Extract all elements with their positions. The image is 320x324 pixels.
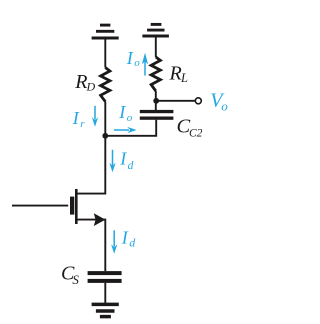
svg-text:I: I <box>118 102 126 122</box>
svg-text:r: r <box>80 118 85 130</box>
svg-text:I: I <box>119 149 127 169</box>
svg-text:I: I <box>126 48 134 68</box>
svg-text:d: d <box>129 235 136 249</box>
svg-text:o: o <box>134 57 140 69</box>
svg-text:C2: C2 <box>189 128 203 140</box>
svg-text:d: d <box>128 160 134 172</box>
svg-text:o: o <box>221 98 228 113</box>
svg-text:L: L <box>180 71 188 85</box>
svg-text:S: S <box>72 272 79 287</box>
svg-text:o: o <box>127 112 133 124</box>
svg-text:R: R <box>169 62 182 84</box>
svg-text:I: I <box>121 228 129 248</box>
svg-text:I: I <box>72 108 80 128</box>
svg-text:D: D <box>86 79 96 93</box>
